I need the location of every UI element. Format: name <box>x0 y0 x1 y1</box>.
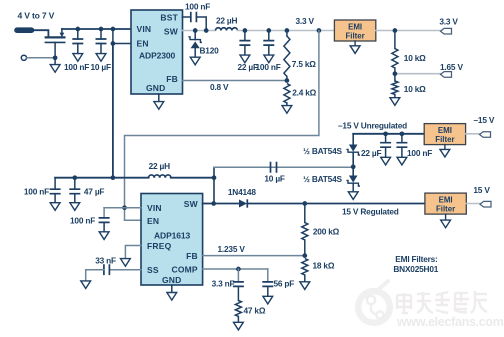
transistor Q1 drain arrow <box>60 29 65 37</box>
junction 1.65V node <box>393 71 398 76</box>
svg-text:100 nF: 100 nF <box>24 187 49 197</box>
wire circle terminal to gate node <box>27 57 55 59</box>
svg-text:–15 V Unregulated: –15 V Unregulated <box>338 121 407 131</box>
junction SW-B120 <box>193 28 198 33</box>
ground (VIN 100 nF) <box>99 232 109 240</box>
wire boost input rail <box>55 177 149 179</box>
svg-text:COMP: COMP <box>171 265 197 275</box>
ground (C10) <box>263 296 273 304</box>
wire 3.3V output rail (light) <box>376 30 442 32</box>
wire 3.3V branch down-left (light) <box>125 31 319 221</box>
ground (FREQ) <box>121 259 131 267</box>
wire U2 GND stub <box>171 285 173 293</box>
ground (C5) <box>264 55 274 63</box>
ground (U2 GND) <box>167 293 177 301</box>
capacitor 100 nF boost input <box>50 178 61 203</box>
svg-text:47 µF: 47 µF <box>84 187 105 197</box>
svg-text:BNX025H01: BNX025H01 <box>393 264 438 274</box>
wire -15V output (light) <box>466 133 481 135</box>
op-amp U1 ADP2300 body <box>131 10 183 94</box>
ground (Q1 gate) <box>50 65 60 73</box>
svg-text:GND: GND <box>146 83 166 93</box>
svg-text:3.3 V: 3.3 V <box>439 16 458 26</box>
svg-text:1.65 V: 1.65 V <box>440 62 463 72</box>
capacitor C7 10 uF coupling <box>271 162 277 173</box>
capacitor C4 22 uF output <box>239 31 250 56</box>
resistor R4 10 kOhm lower <box>392 74 398 98</box>
capacitor C11 22 uF -15V <box>380 134 391 158</box>
svg-text:SW: SW <box>184 199 199 209</box>
wire VIN net <box>104 207 141 209</box>
junction SW-BST <box>204 28 209 33</box>
wire input drop to boost rail <box>112 44 114 178</box>
svg-text:18 kΩ: 18 kΩ <box>313 260 335 270</box>
wire Q1 gate to node <box>54 42 56 57</box>
inductor L2 22 uH boost <box>149 175 171 178</box>
resistor R2 2.4 kOhm <box>284 84 290 106</box>
terminal -15 V output <box>480 132 491 138</box>
terminal 15 V output <box>480 201 491 207</box>
svg-text:FB: FB <box>166 74 178 84</box>
svg-text:SW: SW <box>164 27 179 37</box>
watermark elecfans logo <box>358 281 390 323</box>
svg-text:SS: SS <box>147 265 159 275</box>
transistor Q1 gate bar <box>45 41 66 43</box>
svg-text:Filter: Filter <box>436 204 455 213</box>
ground (input 10 uF) <box>96 54 106 62</box>
wire L2 to inductor node <box>171 177 214 179</box>
diode D4 half BAT54S lower <box>346 176 360 187</box>
ground (C4) <box>240 55 250 63</box>
EMI filter FL2 <box>424 124 465 145</box>
junction -15V C12 <box>400 131 405 136</box>
ground (boost 100 nF) <box>50 203 60 211</box>
resistor R5 200 kOhm <box>302 204 308 256</box>
svg-text:4 V to 7 V: 4 V to 7 V <box>18 11 55 21</box>
capacitor C12 100 nF -15V <box>396 134 407 158</box>
svg-text:EMI: EMI <box>439 196 453 205</box>
wire FL1 ground stub <box>354 41 356 46</box>
wire SW pin to node <box>203 203 214 205</box>
junction FB divider <box>285 78 290 83</box>
wire FB 1.235V rail <box>203 255 305 257</box>
ground (FL1) <box>350 46 360 54</box>
junction pump node <box>351 164 356 169</box>
wire SW node riser <box>213 167 215 203</box>
wire buck output rail (light) <box>237 30 334 32</box>
diode D2 1N4148 <box>239 199 247 207</box>
junction VIN ADP1613 <box>122 205 127 210</box>
wire FB 0.8V rail <box>183 80 287 82</box>
wire FL2 ground stub <box>444 145 446 150</box>
ground (C6) <box>70 203 80 211</box>
svg-text:½ BAT54S: ½ BAT54S <box>303 174 342 184</box>
terminal 1.65 V output <box>441 72 452 78</box>
ground (input 100 nF) <box>73 54 83 62</box>
ground (B120) <box>190 57 200 65</box>
wire BST to C3 <box>183 16 191 18</box>
svg-text:100 nF: 100 nF <box>256 62 281 72</box>
capacitor C10 56 pF comp <box>262 269 273 296</box>
wire SW rail (light) <box>183 30 216 32</box>
capacitor 100 nF input <box>72 29 83 54</box>
svg-text:–15 V: –15 V <box>474 115 495 125</box>
junction FB node U2 <box>302 253 307 258</box>
svg-text:22 µF: 22 µF <box>361 148 382 158</box>
junction input rail EN/branch <box>111 27 116 32</box>
wire D4 to ground <box>352 183 354 192</box>
ground (D4) <box>348 192 358 200</box>
junction COMP node <box>236 267 241 272</box>
ground (C8) <box>81 281 91 289</box>
svg-text:VIN: VIN <box>137 24 152 34</box>
junction output C5 <box>266 28 271 33</box>
junction input rail C2 <box>99 27 104 32</box>
capacitor C3 100 nF bootstrap <box>191 12 197 22</box>
svg-text:3.3 nF: 3.3 nF <box>212 278 235 288</box>
svg-text:ADP1613: ADP1613 <box>154 231 191 241</box>
svg-text:10 kΩ: 10 kΩ <box>404 53 426 63</box>
junction EN branch <box>111 41 116 46</box>
svg-text:1N4148: 1N4148 <box>228 187 256 197</box>
wire gate node to ground <box>54 58 56 65</box>
diode D1 B120 catch <box>188 31 202 58</box>
junction -15V C11 <box>383 131 388 136</box>
svg-text:100 nF: 100 nF <box>407 148 432 158</box>
wire C3 to SW node <box>196 17 206 31</box>
junction boost rail C6 <box>72 175 77 180</box>
svg-text:½ BAT54S: ½ BAT54S <box>303 146 342 156</box>
ground (FL3) <box>441 220 451 228</box>
svg-text:22 µH: 22 µH <box>216 16 238 26</box>
ground (R7) <box>234 322 244 330</box>
capacitor C9 3.3 nF comp <box>233 269 244 301</box>
svg-text:B120: B120 <box>200 46 220 56</box>
svg-text:www.elecfans.com: www.elecfans.com <box>396 315 504 329</box>
wire coupling line to pump <box>214 166 353 168</box>
svg-text:ADP2300: ADP2300 <box>139 51 176 61</box>
wire SW to D2 anode <box>214 203 239 205</box>
svg-text:10 µF: 10 µF <box>264 174 285 184</box>
junction output R1 <box>285 28 290 33</box>
ground (FL2) <box>440 149 450 157</box>
resistor R7 47 kOhm <box>235 301 241 323</box>
wire C8 to ground <box>86 270 104 281</box>
svg-text:BST: BST <box>160 13 178 23</box>
wire EN branch <box>113 29 131 44</box>
wire 15V regulated rail <box>247 203 425 205</box>
watermark chinese characters <box>397 291 487 313</box>
transistor Q1 PMOS channel bar <box>45 36 66 38</box>
svg-text:22 µH: 22 µH <box>149 161 171 171</box>
resistor R1 7.5 kOhm <box>284 31 290 81</box>
wire input rail to VIN <box>62 28 131 30</box>
svg-text:EMI Filters:: EMI Filters: <box>395 254 437 264</box>
svg-text:FB: FB <box>186 251 198 261</box>
wire input to Q1 source <box>32 30 49 36</box>
svg-text:Filter: Filter <box>435 135 454 144</box>
EMI filter FL1 <box>334 20 375 41</box>
resistor R3 10 kOhm upper <box>392 31 398 74</box>
junction input rail C1 <box>75 27 80 32</box>
junction 15V divider <box>302 201 307 206</box>
op-amp U2 ADP1613 body <box>141 194 203 286</box>
wire FL3 ground stub <box>445 214 447 220</box>
svg-text:33 nF: 33 nF <box>95 255 116 265</box>
svg-text:100 nF: 100 nF <box>185 2 210 12</box>
inductor L1 22 uH buck <box>216 28 238 31</box>
capacitor C6 47 uF boost input <box>69 178 80 203</box>
junction boost rail L2 output <box>212 175 217 180</box>
wire -15V riser <box>352 134 354 145</box>
junction output C4 <box>243 28 248 33</box>
svg-text:100 nF: 100 nF <box>64 62 89 72</box>
svg-text:10 µF: 10 µF <box>91 62 112 72</box>
svg-text:EMI: EMI <box>438 126 452 135</box>
wire COMP net <box>203 268 268 270</box>
junction SW node <box>211 201 216 206</box>
wire SS to C8 <box>109 269 141 271</box>
input terminal (supply bar) <box>17 27 32 33</box>
ground (R4) <box>390 98 400 106</box>
capacitor C8 33 nF soft-start <box>104 264 110 275</box>
wire 1.65V line (light) <box>395 73 442 75</box>
svg-text:1.235 V: 1.235 V <box>218 244 246 254</box>
capacitor C5 100 nF output <box>263 31 274 56</box>
junction 3.3V branch <box>317 28 322 33</box>
terminal 3.3 V output <box>441 28 452 34</box>
svg-text:EN: EN <box>137 39 149 49</box>
svg-text:100 nF: 100 nF <box>70 215 95 225</box>
svg-text:GND: GND <box>162 275 182 285</box>
capacitor 10 uF input <box>96 29 107 54</box>
resistor R6 18 kOhm <box>302 259 308 282</box>
capacitor 100 nF VIN (U2) <box>99 208 110 232</box>
svg-text:200 kΩ: 200 kΩ <box>313 227 340 237</box>
ground (C12) <box>397 157 407 165</box>
ground (R6) <box>300 282 310 290</box>
wire D3 to pump node <box>352 152 354 175</box>
svg-text:15 V Regulated: 15 V Regulated <box>342 206 399 216</box>
junction boost rail input drop <box>111 175 116 180</box>
svg-text:EMI: EMI <box>348 22 362 31</box>
svg-text:0.8 V: 0.8 V <box>210 82 229 92</box>
wire 15V output (light) <box>466 203 481 205</box>
svg-text:Filter: Filter <box>345 31 364 40</box>
svg-text:2.4 kΩ: 2.4 kΩ <box>292 88 316 98</box>
svg-text:10 kΩ: 10 kΩ <box>404 84 426 94</box>
EMI filter FL3 <box>425 193 466 214</box>
wire FREQ to ground <box>125 246 141 259</box>
svg-text:15 V: 15 V <box>473 185 490 195</box>
ground (R2) <box>282 106 292 114</box>
svg-text:VIN: VIN <box>147 203 162 213</box>
svg-text:EN: EN <box>147 216 159 226</box>
wire -15V unregulated rail <box>353 133 424 135</box>
svg-text:3.3 V: 3.3 V <box>296 16 315 26</box>
svg-text:56 pF: 56 pF <box>274 278 295 288</box>
svg-text:7.5 kΩ: 7.5 kΩ <box>292 59 316 69</box>
svg-text:FREQ: FREQ <box>147 241 172 251</box>
svg-text:47 kΩ: 47 kΩ <box>244 306 266 316</box>
diode D3 half BAT54S upper <box>346 145 360 156</box>
junction gate node <box>53 55 58 60</box>
junction divider top <box>393 28 398 33</box>
ground (U1 GND) <box>154 102 164 110</box>
gate control terminal (open circle) <box>21 55 26 60</box>
wire U1 GND stub <box>158 94 160 102</box>
ground (C11) <box>381 157 391 165</box>
